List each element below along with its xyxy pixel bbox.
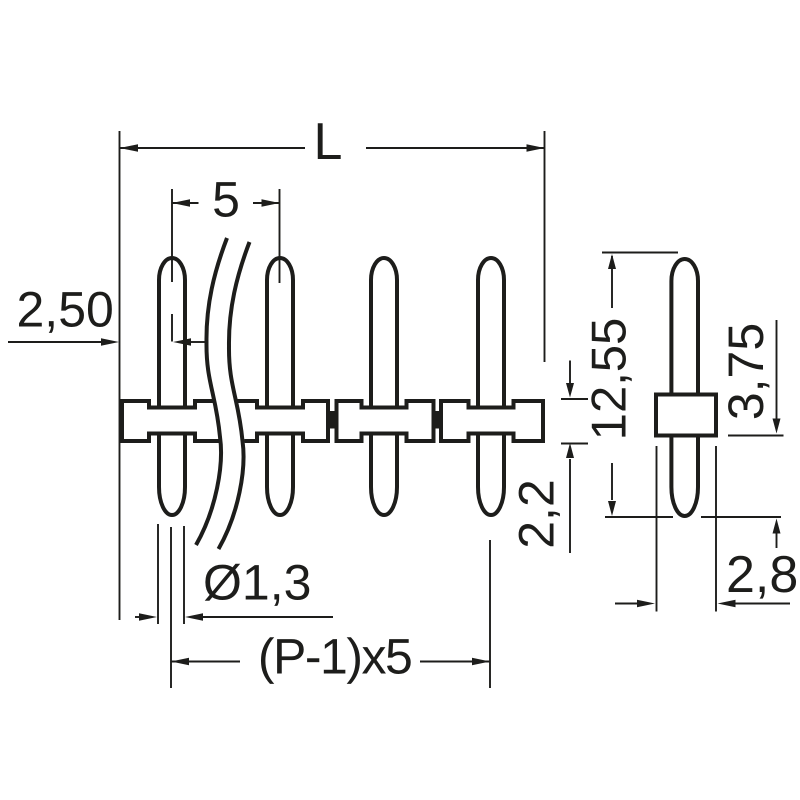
dimension L line [120,147,306,149]
dimension 2,8 arrows [615,603,638,605]
svg-text:L: L [314,113,343,171]
dimension 5 line [172,202,199,204]
dimension 2,8 extension lines [656,446,658,612]
dimension L arrowheads [120,144,138,152]
dimension Ø1,3 arrows [135,616,140,618]
dimension (P-1)x5 extension lines [170,527,172,688]
side view: tick at pin tip level [605,516,673,518]
dimension 2,50 arrow right [190,341,206,343]
dimension 12,55 line [611,256,613,308]
dimension L extension line left [119,131,121,620]
svg-text:3,75: 3,75 [718,323,774,420]
dimension 3,75 line [776,320,778,420]
dimension 2,50 arrow left [8,341,102,343]
side view pin [671,259,698,516]
svg-text:2,8: 2,8 [726,546,798,604]
svg-text:2,2: 2,2 [508,479,564,549]
svg-text:5: 5 [212,172,240,228]
pin 2 [267,258,293,515]
body segment 2 [337,401,434,441]
svg-text:(P-1)x5: (P-1)x5 [258,629,411,685]
break mask [196,238,250,549]
dimension (P-1)x5 line [171,661,240,663]
pin 4 [478,258,504,515]
pin 3 [371,258,397,515]
pin 1 [159,258,185,515]
body segment 1 [122,401,328,441]
dimension 2,2 line lower [569,459,571,553]
junction tab 1 [329,411,336,429]
dimension 5 arrowheads [172,199,190,207]
dimension 12,55 top tick [602,252,678,254]
dimension L extension line right [544,131,546,362]
dimension 2,2 line upper [569,361,571,385]
side view body block [656,395,716,436]
body segment 3 [441,401,543,441]
pin 2 centerline [279,189,281,283]
junction tab 2 [435,411,441,429]
dimension Ø1,3 extension lines [157,524,159,624]
break line right [219,242,250,549]
pin 1 centerline [171,189,173,282]
svg-text:2,50: 2,50 [17,281,114,337]
break line left [196,238,227,545]
svg-text:Ø1,3: Ø1,3 [203,555,311,611]
svg-text:12,55: 12,55 [583,318,637,441]
